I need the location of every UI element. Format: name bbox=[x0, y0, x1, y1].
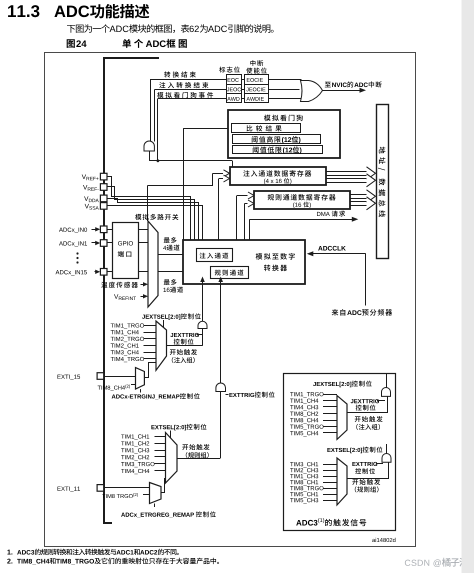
wire VDDA to converter bbox=[107, 199, 199, 241]
wire ADC3 regular mux out bbox=[347, 463, 389, 479]
compare result box bbox=[232, 124, 301, 133]
wire IN0 to GPIO bbox=[107, 229, 112, 231]
address/data bus bar bbox=[377, 105, 389, 259]
wire ADC3 TIM1_CH4 to mux bbox=[323, 400, 337, 402]
label (4 x 16 位) bbox=[264, 178, 291, 184]
wire JEXTSEL control stub bbox=[163, 320, 165, 327]
label ADC3(1)的触发信号 bbox=[296, 518, 366, 526]
wire ADCCLK horizontal bbox=[311, 253, 366, 255]
label 开始触发 (注入) bbox=[170, 349, 197, 355]
wire TIM8_CH4 to remap mux bbox=[131, 384, 136, 386]
label 模拟多路开关 bbox=[135, 214, 178, 220]
arrowhead vrefint bbox=[143, 294, 148, 298]
wire compare input vertical bbox=[183, 128, 185, 240]
wire VREF- to converter bbox=[107, 187, 195, 241]
wire ADC3 TIM8_CH1 to mux regular bbox=[323, 482, 337, 484]
wire IN15 arrow bbox=[95, 271, 97, 273]
regular data register box bbox=[254, 191, 350, 209]
injected trigger mux bbox=[156, 321, 167, 370]
ADC3 trigger label TIM2_CH3 regular bbox=[290, 468, 318, 473]
arrowhead injected trigger bbox=[200, 277, 205, 283]
wire mux to regular channels bbox=[158, 271, 206, 273]
label GPIO bbox=[118, 241, 133, 245]
bus arrow head 3 bbox=[367, 197, 376, 210]
ADC3 trigger label TIM5_CH4 bbox=[290, 431, 318, 436]
wire injected trigger up bbox=[202, 279, 204, 321]
tick JEXTTRIG ADC3 bbox=[377, 400, 385, 402]
remap mux TIM8_TRGO bbox=[150, 483, 162, 504]
low threshold box bbox=[233, 146, 323, 154]
label TIM8_TRGO (2) bbox=[102, 493, 138, 498]
label 转换结束 bbox=[164, 71, 196, 77]
wire IN1 to GPIO bbox=[107, 242, 112, 244]
regular trigger mux bbox=[166, 433, 178, 484]
label 温度传感器 bbox=[101, 282, 138, 288]
AND gate JEXTTRIG ADC3 bbox=[382, 388, 391, 397]
footnote 2 text bbox=[17, 558, 219, 565]
trigger label TIM1_CH2 bbox=[121, 441, 149, 446]
wire gate output down bbox=[149, 151, 151, 161]
stub JEOC-JEOCIE bbox=[242, 89, 246, 91]
pin label VSSA bbox=[85, 204, 99, 210]
wire mux out to gate bbox=[167, 345, 203, 347]
label 端口 bbox=[118, 251, 132, 257]
pad VDDA bbox=[100, 195, 107, 202]
wire regular reg in1 vertical bbox=[236, 196, 238, 241]
pin label ADCx_IN1 bbox=[59, 241, 87, 246]
ADC3 trigger label TIM8_CH2 bbox=[290, 412, 318, 417]
label EXTTRIG控制位 bbox=[229, 392, 274, 398]
arrowhead IN0 bbox=[95, 227, 100, 231]
label JEOCIE bbox=[246, 88, 265, 92]
bus arrow head 1 bbox=[367, 174, 376, 187]
wire TIM1_CH1 to mux bbox=[155, 436, 166, 438]
wire regular trigger up bbox=[220, 279, 222, 383]
trigger label TIM3_TRGO bbox=[121, 462, 154, 467]
stub EOC-EOCIE bbox=[242, 79, 246, 81]
wire injected reg in1 horizontal low bbox=[148, 185, 214, 187]
pin label VDDA bbox=[84, 196, 99, 202]
wire EXTI_11 to remap mux bbox=[104, 487, 150, 489]
figure caption title 单个ADC框图 bbox=[122, 39, 186, 48]
arrowhead regular channels bbox=[206, 270, 211, 274]
wire remap mux out 2 bbox=[161, 479, 166, 493]
label EXTTRIG (ADC3) bbox=[352, 462, 377, 466]
label 模拟看门狗事件 bbox=[157, 92, 213, 98]
wire ADC3 TIM8_CH2 to mux bbox=[323, 413, 337, 415]
ADC3 trigger label TIM1_CH3 regular bbox=[290, 474, 318, 479]
wire DMA request bbox=[250, 219, 353, 221]
trigger label TIM1_CH4 bbox=[111, 330, 139, 335]
wire vrefint bbox=[141, 296, 144, 298]
label JEXTSEL[2:0]控制位 bbox=[142, 313, 201, 320]
wire TIM1_TRGO to mux bbox=[144, 325, 157, 327]
arrowhead injected reg in2 bbox=[224, 175, 230, 182]
trigger label TIM2_CH2 bbox=[121, 455, 149, 460]
wire EOC vertical drop bbox=[150, 80, 152, 142]
footnote 1 bbox=[7, 550, 12, 555]
label AWDIE bbox=[246, 97, 263, 101]
wire mux to injected channels bbox=[158, 254, 191, 256]
trigger label TIM4_CH4 bbox=[121, 469, 149, 474]
wire TIM4_TRGO to mux bbox=[144, 358, 157, 360]
label 开始触发 (ADC3 注入) bbox=[355, 416, 383, 422]
trigger label TIM2_TRGO bbox=[111, 337, 144, 342]
AND gate JEXTTRIG bbox=[198, 321, 207, 328]
label JEXTTRIG (ADC3) bbox=[351, 399, 379, 403]
trigger label TIM4_TRGO bbox=[111, 357, 144, 362]
flag box divider 1 bbox=[226, 84, 242, 86]
label （规则组） bbox=[186, 452, 209, 458]
wire TIM4_CH4 to mux bbox=[155, 470, 166, 472]
wire EXTI_15 to remap mux bbox=[104, 376, 136, 378]
wire gate input from box top bbox=[386, 374, 388, 388]
arrowhead ADCCLK bbox=[307, 251, 314, 256]
wire ADC3 TIM5_CH1 to mux regular bbox=[323, 494, 337, 496]
label ADCx_ETRGREG_REMAP 控制位 bbox=[121, 511, 216, 517]
tick JEXTTRIG to gate bbox=[197, 334, 203, 336]
tick EXTTRIG ADC3 bbox=[376, 463, 383, 465]
wire ADC3 TIM5_CH3 to mux regular bbox=[323, 500, 337, 502]
wire OR gate to NVIC bbox=[323, 90, 361, 92]
label 控制位 (JEXTTRIG ADC3) bbox=[356, 405, 376, 411]
wire JEOC vertical drop bbox=[154, 90, 156, 142]
label 注入通道数据寄存器 bbox=[243, 170, 311, 176]
AND gate watchdog event bbox=[144, 141, 154, 151]
wire AWD vertical drop bbox=[157, 99, 159, 161]
pin label VREF- bbox=[83, 185, 99, 191]
bus arrow shaft top 0 bbox=[326, 171, 367, 173]
label 注入通道 bbox=[200, 253, 229, 259]
ADC3 trigger label TIM4_CH3 bbox=[290, 405, 318, 410]
bus arrow head 2 bbox=[367, 190, 376, 203]
pad ADCx_IN15 bbox=[100, 269, 107, 276]
label ADCCLK bbox=[318, 246, 346, 251]
label 标志位 bbox=[219, 67, 240, 73]
ADC3 trigger label TIM3_CH1 regular bbox=[290, 462, 318, 467]
label 最多 bbox=[164, 279, 177, 285]
pin label VREF+ bbox=[82, 174, 99, 180]
arrowhead IN1 bbox=[95, 241, 100, 245]
ADC3 trigger label TIM5_CH3 regular bbox=[290, 498, 318, 503]
pad VREF- bbox=[100, 184, 107, 191]
arrowhead regular reg in1 bbox=[248, 192, 254, 199]
regular channels box bbox=[211, 267, 249, 279]
wire ADC3 TIM1_TRGO to mux bbox=[323, 394, 337, 396]
ADC3 trigger label TIM8_CH4 bbox=[290, 418, 318, 423]
wire compare input horizontal bbox=[183, 128, 228, 130]
wire IN1 arrow bbox=[92, 242, 97, 244]
pad VSSA bbox=[100, 203, 107, 210]
arrowhead IN15 bbox=[95, 270, 100, 274]
wire JEOCIE to OR gate bbox=[269, 89, 300, 91]
ADC3 trigger label TIM5_CH1 regular bbox=[290, 492, 318, 497]
wire JEOC to flag box bbox=[155, 89, 227, 91]
bus arrow shaft top 1 bbox=[326, 178, 367, 180]
wire temp sensor bbox=[141, 284, 144, 286]
label 最多 bbox=[164, 237, 177, 243]
wire GPIO to mux ch15 bbox=[139, 271, 148, 273]
wire remap mux out bbox=[145, 363, 157, 378]
stub remap control 2 bbox=[154, 504, 156, 508]
label 使能位 bbox=[246, 68, 267, 74]
high threshold box bbox=[233, 135, 321, 144]
label EXTSEL[2:0]控制位 (ADC3) bbox=[327, 447, 382, 454]
label EOC bbox=[228, 78, 239, 82]
figure caption number 图24 bbox=[67, 39, 87, 48]
trigger label TIM2_CH1 bbox=[111, 343, 139, 348]
label 开始触发 (规则) bbox=[182, 444, 209, 450]
footnote 2 bbox=[7, 559, 12, 564]
footnote 1 text bbox=[17, 549, 179, 555]
enable box divider 1 bbox=[245, 84, 269, 86]
flag box divider 2 bbox=[226, 93, 242, 95]
wire gate2 stub bbox=[386, 444, 388, 454]
intro paragraph bbox=[67, 24, 274, 33]
ADC3 trigger signals box bbox=[284, 374, 396, 531]
ADC3 trigger label TIM5_TRGO bbox=[290, 425, 323, 430]
wire ADC3 TIM5_CH4 to mux bbox=[323, 432, 337, 434]
ellipsis dots input pins bbox=[76, 252, 78, 263]
remap mux TIM8_CH4 bbox=[136, 368, 145, 390]
wire GPIO to mux ch1 bbox=[139, 242, 148, 244]
arrowhead DMA request bbox=[352, 217, 359, 222]
wire ADC3 TIM5_TRGO to mux bbox=[323, 426, 337, 428]
label 控制位 (JEXTTRIG) bbox=[174, 339, 194, 345]
bus arrow shaft bottom 0 bbox=[326, 175, 367, 177]
trigger label TIM3_CH4 bbox=[111, 350, 139, 355]
wire AWDIE to OR gate bbox=[269, 98, 302, 100]
wire TIM2_CH2 to mux bbox=[155, 456, 166, 458]
label JEXTTRIG bbox=[170, 333, 198, 337]
bus label 地址/数据总线 rotated bbox=[378, 147, 385, 217]
trigger label TIM1_CH3 bbox=[121, 448, 149, 453]
label 转换器 bbox=[264, 265, 287, 272]
junction AWD / watchdog line bbox=[157, 159, 160, 162]
bus arrow head 0 bbox=[367, 167, 376, 180]
figure frame bbox=[45, 53, 416, 547]
label (16 位) bbox=[293, 202, 311, 208]
label 至NVIC的ADC中断 bbox=[325, 81, 382, 87]
label EXTSEL[2:0]控制位 bbox=[151, 424, 206, 431]
pad ADCx_IN1 bbox=[100, 240, 107, 247]
label ADCx-ETRGINJ_REMAP控制位 bbox=[112, 393, 200, 399]
wire ADC3 injected mux out bbox=[347, 397, 388, 413]
wire TIM2_TRGO to mux bbox=[144, 338, 157, 340]
wire TIM8_TRGO to remap mux bbox=[143, 494, 150, 496]
wire IN15 to GPIO bbox=[107, 271, 112, 273]
bus arrow shaft bottom 1 bbox=[326, 182, 367, 184]
wire TIM1_CH4 to mux bbox=[144, 332, 157, 334]
AND gate EXTTRIG bbox=[216, 383, 226, 392]
wire ADC3 TIM8_CH4 to mux bbox=[323, 420, 337, 422]
arrowhead NVIC interrupt bbox=[360, 88, 367, 93]
injected data register box bbox=[230, 167, 326, 185]
wire EOC to flag box bbox=[150, 79, 226, 81]
pad ADCx_IN0 bbox=[100, 226, 107, 233]
label 模拟至数字 bbox=[256, 253, 295, 260]
label 阈值低限(12位) bbox=[253, 146, 302, 153]
wire TIM1_CH3 to mux bbox=[155, 450, 166, 452]
wire ADC3 TIM4_CH3 to mux bbox=[323, 406, 337, 408]
label 开始触发 (ADC3 规则) bbox=[352, 479, 380, 485]
trigger label TIM1_CH1 bbox=[121, 434, 149, 439]
injected channels box bbox=[197, 249, 233, 262]
label （注入组） bbox=[172, 357, 195, 363]
label 来自ADC预分频器 bbox=[332, 309, 392, 316]
wire left feed vertical bbox=[147, 186, 149, 222]
label AWD bbox=[227, 97, 239, 101]
ADC3 trigger label TIM1_CH4 bbox=[290, 399, 318, 404]
watermark CSDN bbox=[405, 558, 468, 567]
wire injected reg in1 vertical bbox=[212, 173, 214, 185]
bus arrow shaft bottom 3 bbox=[350, 205, 367, 207]
wire TIM1_CH2 to mux bbox=[155, 443, 166, 445]
arrowhead regular trigger bbox=[218, 277, 223, 283]
wire ADC3 TIM3_CH1 to mux regular bbox=[323, 464, 337, 466]
label 规则通道数据寄存器 bbox=[268, 194, 336, 200]
wire DMA vertical bbox=[249, 219, 251, 240]
label 规则通道 bbox=[215, 270, 244, 276]
wire EOCIE to OR gate bbox=[269, 79, 302, 81]
wire VREF+ to converter bbox=[107, 177, 191, 241]
label 4通道 bbox=[163, 245, 179, 251]
heading title ADC功能描述 bbox=[54, 4, 149, 18]
analog multiplexer bbox=[148, 221, 158, 307]
pad VREF+ bbox=[100, 173, 107, 180]
ADC3 trigger label TIM8_CH1 regular bbox=[290, 480, 318, 485]
bus arrow shaft top 3 bbox=[350, 201, 367, 203]
label 16通道 bbox=[163, 287, 183, 293]
label EOCIE bbox=[247, 78, 263, 82]
ADC3 regular trigger mux bbox=[337, 458, 347, 505]
tick EXTTRIG to gate bbox=[226, 394, 229, 396]
analog watchdog box bbox=[228, 110, 340, 158]
pin label EXTI_11 bbox=[57, 487, 80, 492]
wire injected reg in2 vertical bbox=[218, 179, 220, 241]
stub remap control bbox=[140, 389, 142, 392]
label JEXTSEL[2:0]控制位 (ADC3) bbox=[313, 381, 372, 388]
flag bits box EOC/JEOC/AWD bbox=[227, 75, 242, 103]
label JEOC bbox=[227, 88, 241, 92]
pad EXTI_15 bbox=[97, 373, 104, 380]
label DMA 请求 bbox=[317, 211, 345, 217]
wire regular reg in2 to box bbox=[245, 203, 248, 205]
stub AWD-AWDIE bbox=[242, 98, 246, 100]
arrowhead regular reg in2 bbox=[248, 200, 254, 207]
label （规则组） (ADC3) bbox=[355, 486, 379, 492]
label 注入转换结束 bbox=[159, 82, 208, 88]
wire regular reg in1 to box bbox=[237, 195, 248, 197]
arrowhead injected reg in1 bbox=[224, 170, 230, 177]
wire EXTSEL mux out horizontal bbox=[177, 458, 220, 460]
pin label EXTI_15 bbox=[57, 375, 80, 380]
wire regular reg in2 vertical bbox=[244, 204, 246, 241]
interrupt enable box EOCIE/JEOCIE/AWDIE bbox=[245, 75, 269, 103]
arrowhead injected channels bbox=[191, 252, 196, 256]
ADC3 injected trigger mux bbox=[337, 396, 347, 440]
pin label ADCx_IN15 bbox=[56, 270, 87, 275]
wire TIM3_CH4 to mux bbox=[144, 352, 157, 354]
label （注入组） (ADC3) bbox=[356, 424, 380, 430]
ADC block boundary bracket bbox=[104, 58, 159, 523]
label 控制位 (EXTTRIG ADC3) bbox=[355, 468, 375, 474]
label 阈值高限(12位) bbox=[252, 136, 301, 143]
ADC3 trigger label TIM8_TRGO regular bbox=[290, 486, 323, 491]
wire IN0 arrow bbox=[92, 229, 97, 231]
label 模拟看门狗 bbox=[264, 115, 303, 121]
enable box divider 2 bbox=[245, 93, 269, 95]
AND gate EXTTRIG ADC3 bbox=[382, 454, 391, 463]
bus arrow shaft top 2 bbox=[350, 194, 367, 196]
page edge gray band bbox=[462, 0, 474, 573]
label 比较结果 bbox=[247, 125, 282, 131]
wire VSSA to converter bbox=[107, 206, 203, 241]
wire injected reg in1 to box bbox=[213, 173, 223, 175]
ADC3 trigger label TIM1_TRGO bbox=[290, 392, 323, 397]
wire ADC3 TIM1_CH3 to mux regular bbox=[323, 476, 337, 478]
GPIO port box bbox=[113, 223, 139, 279]
wire ADCCLK vertical bbox=[365, 254, 367, 306]
label 中断 bbox=[250, 60, 263, 66]
wire AWD to flag box bbox=[158, 98, 226, 100]
wire TIM3_TRGO to mux bbox=[155, 463, 166, 465]
pin label ADCx_IN0 bbox=[59, 228, 87, 233]
wire ADC3 TIM2_CH3 to mux regular bbox=[323, 470, 337, 472]
arrowhead temp sensor bbox=[143, 282, 148, 286]
wire GPIO to mux ch0 bbox=[139, 229, 148, 231]
wire watchdog event horizontal bbox=[149, 160, 232, 162]
wire injected reg in2 to box bbox=[219, 178, 223, 180]
wire drop into injected data register bbox=[232, 161, 234, 167]
wire ADC3 TIM8_TRGO to mux regular bbox=[323, 488, 337, 490]
wire EXTSEL mux out vertical bbox=[220, 392, 222, 459]
wire EXTSEL control stub bbox=[170, 431, 172, 440]
OR gate ADC interrupt bbox=[301, 81, 323, 102]
label TIM8_CH4 (2) bbox=[98, 385, 130, 391]
label ai14802d bbox=[372, 538, 395, 542]
wire gate input below bbox=[202, 329, 204, 346]
wire TIM2_CH1 to mux bbox=[144, 345, 157, 347]
ADC converter box bbox=[183, 240, 305, 284]
heading section number 11.3 bbox=[8, 5, 39, 17]
label VREFINT bbox=[114, 294, 136, 300]
trigger label TIM1_TRGO bbox=[111, 323, 144, 328]
pad EXTI_11 bbox=[97, 485, 104, 492]
bus arrow shaft bottom 2 bbox=[350, 198, 367, 200]
